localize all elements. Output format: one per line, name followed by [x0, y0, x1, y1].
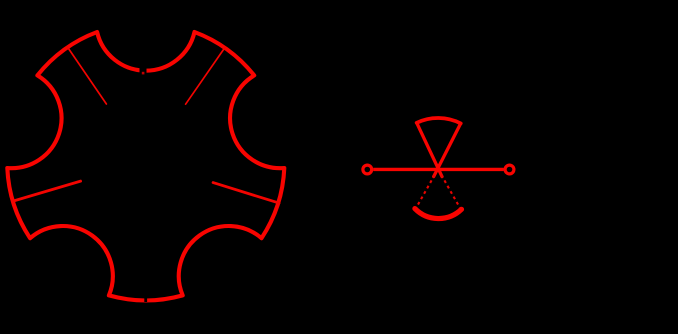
top blade side left (solid, extended past centre): [417, 123, 442, 177]
slot line upper-right: [186, 47, 226, 104]
left bearing ring: [363, 165, 372, 174]
gap at bottom lobe centre: [144, 296, 147, 302]
right bearing ring: [505, 165, 514, 174]
top blade side right (solid, extended past centre): [434, 123, 461, 176]
slot line right: [213, 183, 279, 204]
bottom blade side right (dashed): [441, 175, 461, 210]
gap in top cutout arc: [140, 68, 147, 76]
shaft line: [373, 168, 504, 171]
bottom blade side left (dashed): [416, 175, 435, 209]
slot line left: [13, 181, 81, 201]
dot at top cutout bottom: [142, 72, 145, 75]
slot line upper-left: [67, 47, 106, 104]
bottom blade arc (solid thick): [415, 209, 462, 219]
top blade arc: [417, 118, 461, 123]
star wheel outline: [7, 32, 284, 300]
